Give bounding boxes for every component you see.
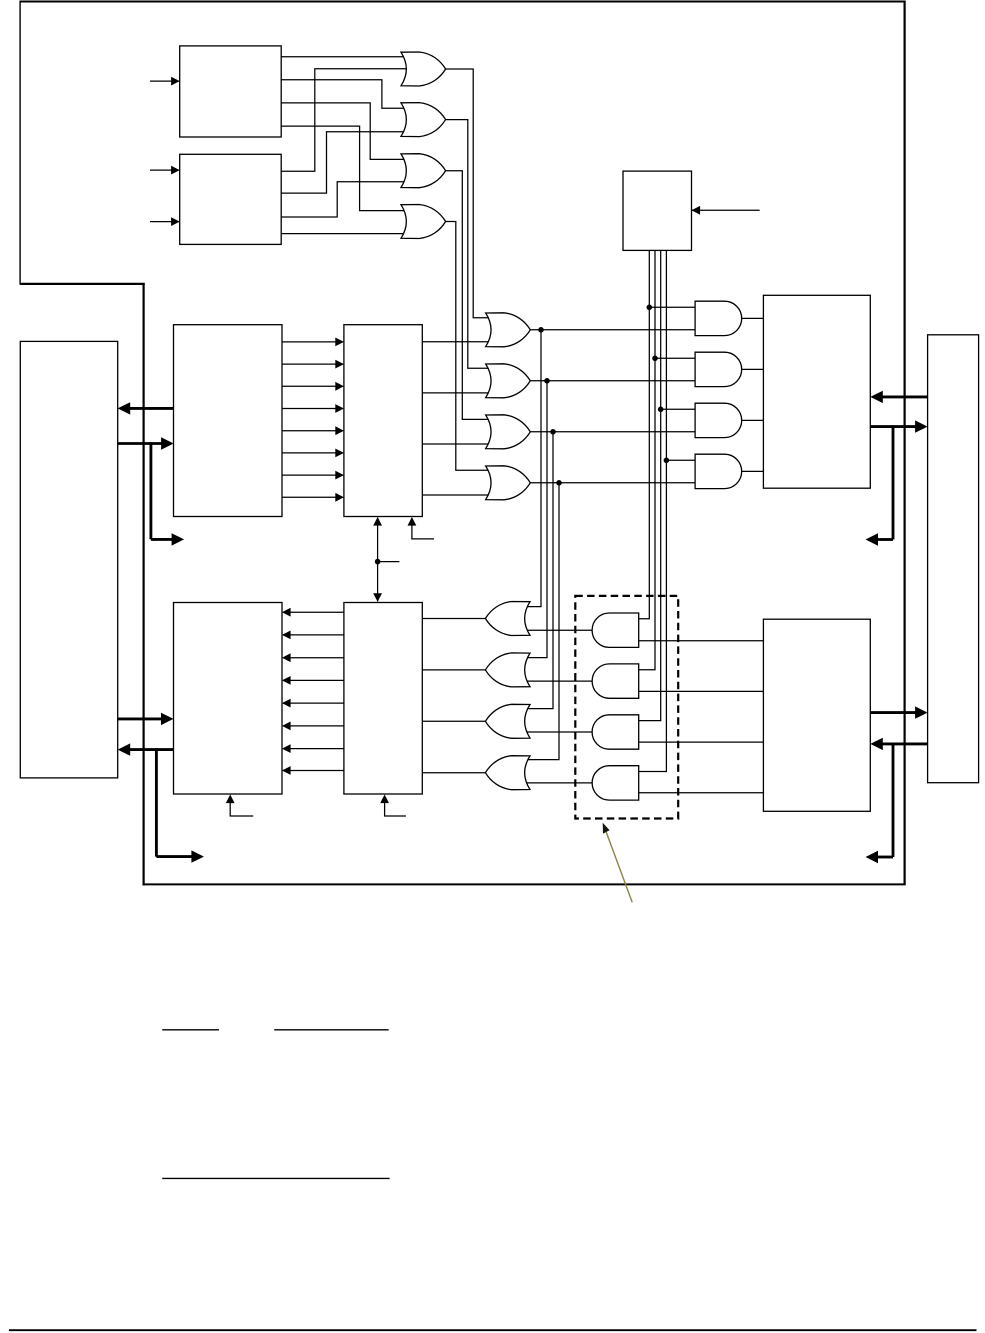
arrowhead C->D bit 6 [335, 449, 344, 458]
arrowhead G->F bit 3 [282, 653, 291, 662]
wire: OR3 output down to OR7 upper input [446, 171, 493, 420]
arrowhead C->D bit 3 [335, 382, 344, 391]
wire: input 1 to block B [150, 169, 180, 171]
wire: OR10 output to block G [422, 669, 485, 671]
bus arrow branch: down from left-to-C bus [149, 442, 152, 539]
wire: bus tap 2 to AND2 upper input [655, 357, 701, 359]
arrowhead up into block D bottom [373, 517, 382, 526]
and-gate AND4 [695, 454, 742, 488]
block I (command register) [623, 171, 692, 250]
wire: block G to block F bit 4 [283, 679, 344, 681]
arrowhead G->F bit 8 [282, 766, 291, 775]
wire: command bus line 3 from block I to lower AND7 [632, 250, 661, 720]
wire: OR4 output down to OR8 upper input [446, 222, 493, 471]
and-gate AND1 [695, 301, 742, 335]
arrowhead G->F bit 7 [282, 744, 291, 753]
wire: bus tap 4 to AND4 upper input [666, 459, 701, 461]
arrowhead into block I [692, 206, 701, 215]
wire: command bus line 4 from block I to lower AND8 [632, 250, 667, 771]
wire: block H out4 to AND8 lower input [632, 792, 764, 794]
or-gate OR3 [401, 154, 446, 188]
wire: clock stub into block F bottom [230, 796, 253, 817]
wire: block A out2 to OR2 [281, 80, 409, 109]
or-gate OR10 (mirrored) [485, 653, 530, 687]
arrowhead G->F bit 2 [282, 631, 291, 640]
wire: drop from OR5 output to OR9 upper input [526, 330, 541, 607]
or-gate OR2 [401, 103, 446, 137]
wire: OR7 output to AND3 lower input [530, 431, 701, 433]
wire: OR8 output to AND4 lower input [530, 482, 701, 484]
border: left jog [20, 283, 145, 285]
or-gate OR7 [486, 415, 531, 449]
wire: bus tap 1 to AND1 upper input [649, 306, 701, 308]
wire: input to block I [692, 209, 760, 211]
border: left lower edge [143, 283, 145, 886]
junction on bus line 2 at AND2 tap [652, 356, 658, 362]
wire: OR2 output down to OR6 upper input [446, 120, 493, 369]
wire: block B out3 to OR3 [281, 182, 409, 217]
wire: clock stub into block D bottom [412, 518, 434, 539]
wire: block B out4 to OR4 [281, 233, 409, 235]
wire: block A out4 to OR4 [281, 126, 409, 211]
wire: AND2 output to block E [742, 368, 764, 370]
wire: block G to block F bit 6 [283, 725, 344, 727]
or-gate OR1 [401, 52, 446, 86]
caption underline segment 3 [162, 1177, 389, 1179]
border: bottom edge [144, 883, 906, 885]
wire: AND4 output to block E [742, 470, 764, 472]
wire: AND5 output to OR9 lower input [526, 629, 592, 631]
wire: block C to block D bit 5 [282, 430, 343, 432]
wire: bus tap 3 to AND3 upper input [661, 408, 701, 410]
wire: block H out2 to AND6 lower input [632, 690, 764, 692]
wire: block G to block F bit 5 [283, 702, 344, 704]
and-gate AND5 (mirrored) [592, 613, 639, 647]
arrowhead down into block G top [373, 593, 382, 602]
wire: block G to block F bit 7 [283, 748, 344, 750]
and-gate AND6 (mirrored) [592, 664, 639, 698]
wire: AND1 output to block E [742, 317, 764, 319]
arrowhead C->D bit 8 [335, 493, 344, 502]
border: right edge [903, 1, 905, 885]
block F (receive buffer) [174, 603, 283, 795]
bus arrow: block E to right block [870, 425, 915, 428]
wire: tap from D-G wire [378, 561, 400, 563]
arrowhead up into block G (clock) [380, 795, 389, 804]
wire: AND6 output to OR10 lower input [526, 680, 592, 682]
junction on bus line 1 at AND1 tap [647, 305, 653, 311]
border: left upper edge [19, 1, 21, 285]
junction on bus line 4 at AND4 tap [664, 458, 670, 464]
wire: block C to block D bit 3 [282, 385, 343, 387]
caption underline segment 2 [274, 1029, 389, 1031]
and-gate AND7 (mirrored) [592, 715, 639, 749]
wire: command bus line 2 from block I to lower AND6 [632, 250, 655, 669]
input arrowhead 1 into block B [171, 166, 180, 175]
callout arrow pointing at dashed box [606, 832, 632, 902]
wire: OR1 output down to OR5 upper input [446, 69, 493, 318]
wire: block C to block D bit 4 [282, 408, 343, 410]
and-gate AND2 [695, 352, 742, 386]
wire: OR11 output to block G [422, 720, 485, 722]
arrowhead C->D bit 1 [335, 338, 344, 347]
or-gate OR5 [486, 313, 531, 347]
or-gate OR8 [486, 466, 531, 500]
arrowhead C->D bit 4 [335, 404, 344, 413]
wire: drop from OR7 output to OR11 upper input [526, 432, 553, 709]
block C (transmit buffer) [174, 325, 283, 517]
or-gate OR11 (mirrored) [485, 704, 530, 738]
wire: OR6 output to AND2 lower input [530, 380, 701, 382]
arrowhead C->D bit 5 [335, 426, 344, 435]
wire: block C to block D bit 1 [282, 341, 343, 343]
block G (receive shift register) [344, 603, 422, 795]
wire: block H out3 to AND7 lower input [632, 741, 764, 743]
wire: AND7 output to OR11 lower input [526, 731, 592, 733]
junction on D-G wire [375, 559, 381, 565]
arrowhead up into block D (clock) [408, 517, 417, 526]
arrowhead C->D bit 2 [335, 360, 344, 369]
input arrowhead 2 into block B [171, 217, 180, 226]
junction on OR5 output [538, 327, 544, 333]
bus arrow: right block to block H [882, 742, 927, 745]
wire: block B out1 to OR1 [281, 69, 409, 172]
bus arrow: right block to block E [882, 395, 927, 398]
wire: OR12 output to block G [422, 772, 485, 774]
block A (top-left register) [180, 46, 282, 137]
dashed box around AND5-8 (acceptance filter) [575, 596, 678, 819]
wire: AND8 output to OR12 lower input [526, 782, 592, 784]
arrowhead G->F bit 6 [282, 722, 291, 731]
wire: input to block A [150, 80, 180, 82]
wire: OR9 output to block G [422, 618, 485, 620]
wire: block C to block D bit 6 [282, 452, 343, 454]
wire: clock stub into block G bottom [385, 796, 406, 817]
junction on OR6 output [544, 378, 550, 384]
arrowhead G->F bit 5 [282, 699, 291, 708]
wire: block G to block F bit 3 [283, 657, 344, 659]
bus arrow branch: down from right-to-H bus [892, 743, 895, 857]
and-gate AND3 [695, 403, 742, 437]
block B (second register) [180, 154, 282, 244]
border: top edge [20, 1, 905, 3]
wire: block D out3 to OR7 lower input [422, 443, 493, 445]
bus arrow branch: down from F-to-left bus [155, 748, 158, 856]
wire: block C to block D bit 7 [282, 474, 343, 476]
footer rule [9, 1329, 977, 1331]
left tall block (CPU bus interface) [20, 341, 117, 778]
block D (transmit shift register) [344, 325, 422, 517]
wire: block G to block F bit 2 [283, 634, 344, 636]
caption underline segment 1 [162, 1029, 219, 1031]
junction on OR8 output [556, 480, 562, 486]
block H (input port register) [763, 619, 870, 811]
junction on OR7 output [550, 429, 556, 435]
wire: block B out2 to OR2 [281, 132, 409, 193]
or-gate OR4 [401, 205, 446, 239]
wire: input 2 to block B [150, 221, 180, 223]
wire: block A out3 to OR3 [281, 103, 409, 159]
or-gate OR6 [486, 364, 531, 398]
bus arrow: block H to right block [870, 711, 915, 714]
wire: block A out1 to OR1 [281, 56, 409, 58]
bus arrow: left block to block C [118, 442, 162, 445]
wire: block D out4 to OR8 lower input [422, 494, 493, 496]
wire: drop from OR8 output to OR12 upper input [526, 483, 559, 760]
wire: block C to block D bit 8 [282, 496, 343, 498]
input arrowhead into block A [171, 77, 180, 86]
wire: block G to block F bit 1 [283, 611, 344, 613]
bus arrow: block F to left block [130, 748, 174, 751]
wire: AND3 output to block E [742, 419, 764, 421]
junction on bus line 3 at AND3 tap [658, 407, 664, 413]
arrowhead up into block F (clock) [226, 795, 235, 804]
and-gate AND8 (mirrored) [592, 766, 639, 800]
wire: drop from OR6 output to OR10 upper input [526, 381, 547, 658]
wire: block C to block D bit 2 [282, 363, 343, 365]
block E (output port register) [763, 295, 870, 488]
bus arrow: block C to left block [130, 407, 174, 410]
wire: OR5 output to AND1 lower input [530, 329, 701, 331]
or-gate OR12 (mirrored) [485, 756, 530, 790]
bus arrow: left block to block F [118, 717, 162, 720]
arrowhead G->F bit 4 [282, 676, 291, 685]
wire: block H out1 to AND5 lower input [632, 640, 764, 642]
wire: command bus line 1 from block I to lower AND5 [632, 250, 650, 618]
or-gate OR9 (mirrored) [485, 602, 530, 636]
wire: block G to block F bit 8 [283, 770, 344, 772]
wire: block D to block G bidirectional [377, 518, 379, 602]
right tall block (I/O pins) [928, 335, 979, 783]
wire: block D out1 to OR5 lower input [422, 341, 493, 343]
bus arrow branch: down from E-to-right bus [892, 425, 895, 539]
arrowhead G->F bit 1 [282, 608, 291, 617]
wire: block D out2 to OR6 lower input [422, 392, 493, 394]
arrowhead C->D bit 7 [335, 471, 344, 480]
